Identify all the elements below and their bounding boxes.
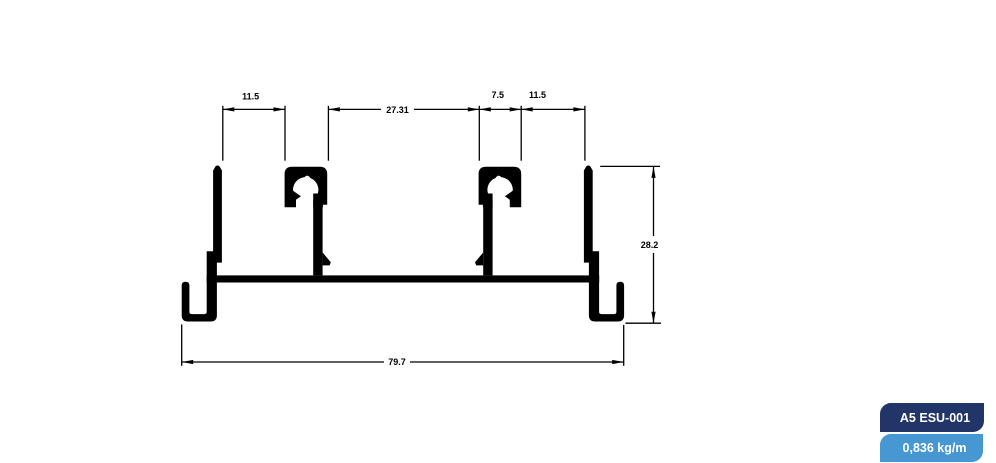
arrowheads 7.5 [479, 107, 491, 111]
head block [285, 167, 328, 208]
cavity bottom slot knockout [296, 193, 313, 209]
right outer wall with bottom J-hook (mirrored) [584, 166, 624, 322]
arrowheads 79.7 [182, 360, 194, 364]
rib on stem [323, 253, 331, 266]
dim line 27.31 [328, 108, 381, 110]
dim line 11.5 left [223, 108, 285, 110]
svg-text:7.5: 7.5 [491, 90, 504, 100]
cavity circle knockout [293, 177, 318, 202]
extension lines bottom 79.7 [181, 324, 183, 365]
dim line 7.5 [479, 108, 521, 110]
arrowheads 27.31 [328, 107, 340, 111]
cavity top notch knockout [299, 176, 314, 185]
part number tag A5 ESU-001 [880, 403, 984, 432]
dim line 28.2 [653, 166, 655, 236]
left middle post with keyhole head [285, 167, 331, 276]
weight tag 0,836 kg/m [880, 434, 983, 462]
left outer wall with bottom J-hook [182, 166, 222, 322]
svg-text:79.7: 79.7 [388, 357, 406, 367]
arrowheads 11.5 left [223, 107, 235, 111]
svg-text:11.5: 11.5 [529, 90, 546, 100]
post stem [313, 194, 322, 276]
extension lines 28.2 [600, 165, 660, 167]
right middle post with keyhole head (mirrored) [475, 167, 521, 276]
dim line 79.7 [182, 361, 384, 363]
arrowheads 11.5 right [521, 107, 533, 111]
base bar [207, 275, 600, 282]
svg-text:11.5: 11.5 [242, 92, 259, 102]
svg-text:28.2: 28.2 [641, 240, 659, 250]
hook lip [292, 190, 301, 203]
extension lines top dims [222, 106, 224, 161]
svg-text:27.31: 27.31 [386, 105, 409, 115]
arrowheads 28.2 [651, 166, 655, 178]
dim line 11.5 right [521, 108, 585, 110]
